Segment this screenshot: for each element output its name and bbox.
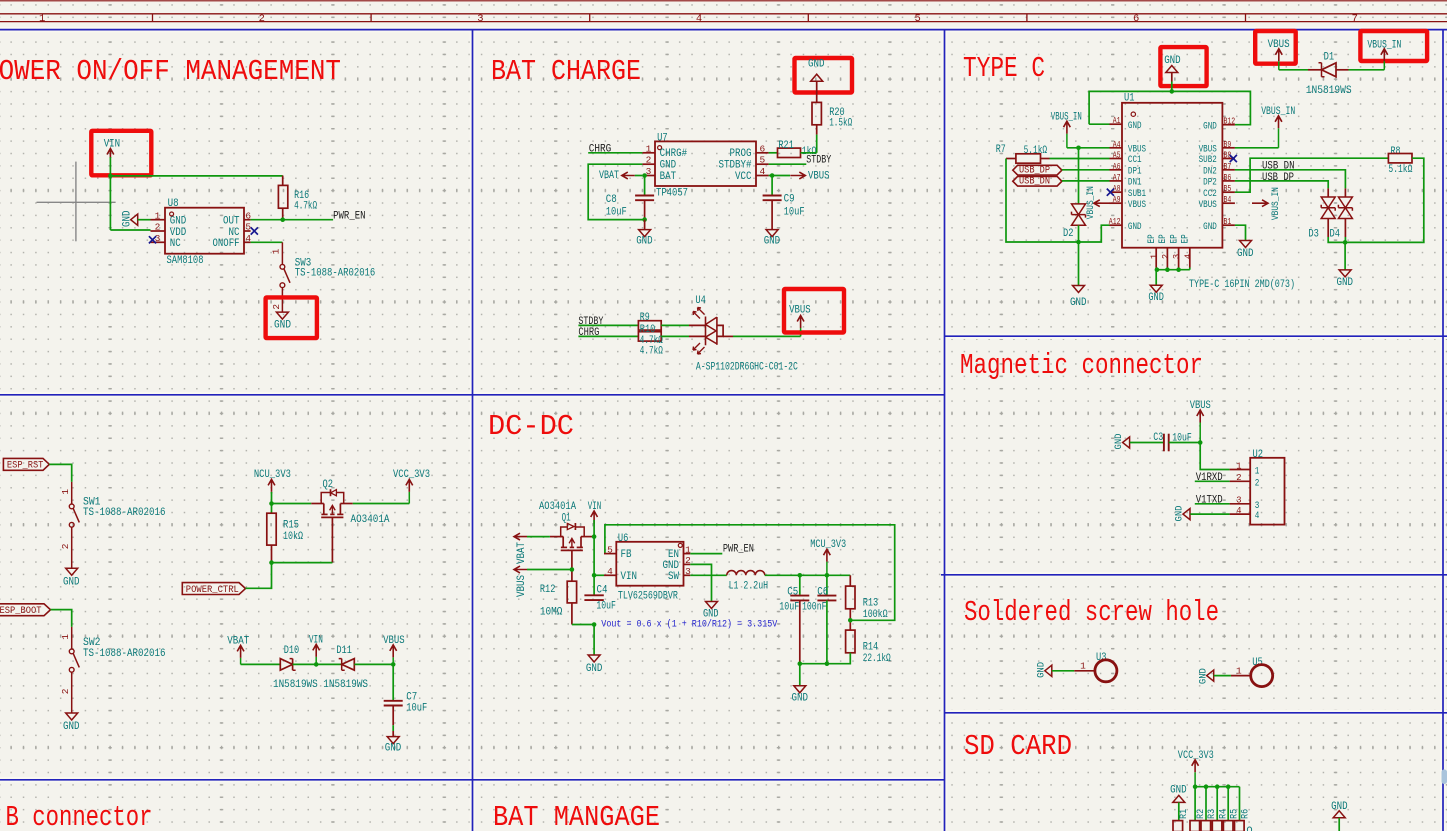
wire GND to C3 xyxy=(1130,442,1164,444)
svg-text:B1: B1 xyxy=(1224,217,1232,227)
svg-text:GND: GND xyxy=(1174,506,1186,522)
svg-text:Q1: Q1 xyxy=(562,512,571,524)
wire gnd rail top xyxy=(1089,91,1250,124)
wire ONOFF to SW3 xyxy=(251,241,283,243)
junction xyxy=(825,661,830,666)
wire PROG to R21 xyxy=(769,152,778,154)
wire D11 to VBUS node xyxy=(354,663,393,665)
svg-text:5: 5 xyxy=(759,155,765,166)
svg-text:GND: GND xyxy=(586,663,603,675)
resistor R14 xyxy=(846,630,855,653)
svg-text:1: 1 xyxy=(60,489,71,495)
junction xyxy=(642,217,647,222)
resistor R4 xyxy=(1212,821,1222,831)
resistor R20 xyxy=(812,102,821,124)
svg-text:STDBY#: STDBY# xyxy=(719,160,752,172)
svg-text:4.7kΩ: 4.7kΩ xyxy=(640,346,663,358)
power symbol GND U5 xyxy=(1207,670,1214,681)
junction xyxy=(108,174,113,179)
svg-text:B connector: B connector xyxy=(6,801,153,831)
capacitor C7 xyxy=(384,700,403,702)
svg-text:6: 6 xyxy=(1133,13,1139,25)
svg-text:Vout = 0.6 x (1 + R10/R12) = 3: Vout = 0.6 x (1 + R10/R12) = 3.315V xyxy=(601,618,777,630)
svg-text:4: 4 xyxy=(1183,254,1193,259)
power symbol GND U2 pin4 xyxy=(1183,509,1190,520)
wire ESP_RST to SW1 xyxy=(49,464,71,482)
capacitor C4 xyxy=(584,594,603,596)
pin 2 U2 xyxy=(1230,480,1251,482)
junction xyxy=(642,173,647,178)
ruler tick xyxy=(589,14,591,22)
ruler tick xyxy=(807,14,809,22)
svg-text:4: 4 xyxy=(759,166,765,177)
svg-text:10uF: 10uF xyxy=(784,206,805,218)
wire R10 to LED xyxy=(661,335,689,337)
svg-text:GND: GND xyxy=(63,576,80,588)
svg-text:GND: GND xyxy=(1237,248,1254,260)
svg-text:STDBY: STDBY xyxy=(806,154,831,166)
svg-text:4: 4 xyxy=(607,566,613,577)
pin B6 DP2 xyxy=(1222,180,1235,182)
svg-text:U8: U8 xyxy=(168,198,179,210)
wire VBUS down to pin1 xyxy=(1200,443,1229,470)
svg-text:B4: B4 xyxy=(1224,195,1232,205)
wire A1 gnd xyxy=(1089,123,1109,125)
svg-text:3: 3 xyxy=(685,566,691,577)
pin 6 OUT xyxy=(244,219,251,221)
pin 3 U2 xyxy=(1230,503,1251,505)
svg-text:A9: A9 xyxy=(1113,195,1121,205)
wire R21 to R20 xyxy=(801,152,817,154)
wire VIN down xyxy=(109,157,111,230)
svg-text:R12: R12 xyxy=(540,584,556,596)
sheet ruler band xyxy=(0,13,1447,15)
svg-text:FB: FB xyxy=(621,549,632,561)
resistor R9 xyxy=(638,321,661,330)
junction xyxy=(570,567,575,572)
svg-text:U7: U7 xyxy=(657,132,668,144)
svg-text:TS-1088-AR02016: TS-1088-AR02016 xyxy=(83,648,166,660)
power symbol GND C3 xyxy=(1123,437,1130,448)
wire VDD xyxy=(110,229,150,231)
svg-text:1: 1 xyxy=(646,143,652,154)
svg-text:GND: GND xyxy=(1148,292,1164,304)
wire CC2 to R8 xyxy=(1235,158,1389,192)
wires rail drops xyxy=(1194,787,1196,821)
resistor R16 xyxy=(278,185,287,208)
pin 3 SW xyxy=(684,574,691,576)
power flag VBUS_IN at B4 xyxy=(1252,200,1268,207)
wire GND pin2 down xyxy=(690,564,711,601)
svg-text:ESP_BOOT: ESP_BOOT xyxy=(0,605,42,617)
junction xyxy=(1155,267,1160,272)
svg-text:10uF: 10uF xyxy=(596,600,616,612)
ruler tick xyxy=(152,14,154,22)
halo under borders xyxy=(0,27,1447,33)
wire VBAT to Q1 xyxy=(527,536,550,538)
wire R12 to bottom xyxy=(571,603,573,625)
power symbol GND below C4 xyxy=(588,655,600,662)
svg-text:3: 3 xyxy=(477,13,483,25)
sheet ruler top edge xyxy=(0,0,1447,2)
wire R15 bottom to gate xyxy=(272,562,333,564)
wire GND SD right xyxy=(1338,818,1340,831)
svg-text:VIN: VIN xyxy=(621,571,638,583)
scrollbar thumb xyxy=(1442,770,1447,785)
svg-text:2: 2 xyxy=(685,555,691,566)
section border y=713 right xyxy=(945,712,1447,714)
svg-text:5: 5 xyxy=(914,13,920,25)
svg-text:1: 1 xyxy=(1255,466,1260,477)
highlight box GND typec xyxy=(1160,47,1206,86)
pin B8 SUB2 xyxy=(1222,158,1235,160)
wire R9 to LED xyxy=(661,324,689,326)
wire VBAT to pin3 xyxy=(635,175,643,177)
junction xyxy=(314,662,319,667)
wire VBUS to D1 xyxy=(1279,69,1308,71)
no-connect pin 3 xyxy=(149,236,156,243)
svg-text:B7: B7 xyxy=(1224,162,1232,172)
ruler tick xyxy=(1026,14,1028,22)
svg-text:R1: R1 xyxy=(1178,809,1190,819)
svg-text:D4: D4 xyxy=(1330,229,1341,241)
svg-text:GND: GND xyxy=(170,216,187,228)
wire CHRG to pin1 xyxy=(588,152,642,154)
svg-text:TS-1088-AR02016: TS-1088-AR02016 xyxy=(295,267,376,279)
svg-text:ESP_RST: ESP_RST xyxy=(7,460,44,472)
svg-text:GND: GND xyxy=(121,210,133,227)
wire rail to GND xyxy=(799,664,801,686)
svg-text:2: 2 xyxy=(1161,254,1171,259)
svg-text:VBAT: VBAT xyxy=(599,170,619,182)
svg-text:C9: C9 xyxy=(784,194,795,206)
svg-text:BAT CHARGE: BAT CHARGE xyxy=(491,55,641,88)
resistor R6 xyxy=(1235,821,1245,831)
svg-text:C3: C3 xyxy=(1153,432,1163,444)
svg-text:VBUS: VBUS xyxy=(789,305,811,317)
wire VBAT to D10 xyxy=(241,663,281,665)
resistor R2 xyxy=(1190,821,1200,831)
resistor R12 xyxy=(567,581,576,603)
wire V1TXD xyxy=(1195,503,1230,505)
wire C3 to VBUS xyxy=(1169,442,1201,444)
svg-text:GND: GND xyxy=(274,319,291,331)
pin 3 NC xyxy=(151,241,166,243)
svg-text:GND: GND xyxy=(1164,55,1181,67)
svg-text:A4: A4 xyxy=(1113,140,1121,150)
wire to GND D3D4 xyxy=(1344,242,1346,270)
pin 1 U3 xyxy=(1074,670,1095,672)
svg-text:B6: B6 xyxy=(1224,173,1232,183)
svg-text:TYPE C: TYPE C xyxy=(963,52,1045,85)
no-connect A8 xyxy=(1107,189,1114,196)
svg-text:TLV62569DBVR: TLV62569DBVR xyxy=(618,590,678,602)
wire Q1 gate to R12 xyxy=(571,550,573,581)
svg-text:R15: R15 xyxy=(283,520,299,532)
svg-text:7: 7 xyxy=(1352,13,1358,25)
svg-text:A1: A1 xyxy=(1113,116,1121,126)
connector U2 body xyxy=(1250,458,1284,525)
svg-text:PROG: PROG xyxy=(730,148,752,160)
power symbol GND below C8 xyxy=(644,220,646,230)
pin 6 PROG xyxy=(756,152,769,154)
svg-text:VBUS_IN: VBUS_IN xyxy=(1270,187,1282,220)
junction xyxy=(391,662,396,667)
junction xyxy=(1076,240,1081,245)
wire D1 to VBUS_IN xyxy=(1336,69,1349,71)
pin B9 VBUS xyxy=(1222,147,1235,149)
svg-text:GND: GND xyxy=(792,693,809,705)
svg-text:4: 4 xyxy=(696,13,702,25)
svg-text:DC-DC: DC-DC xyxy=(488,410,574,443)
svg-text:10uF: 10uF xyxy=(606,206,627,218)
svg-text:PWR_EN: PWR_EN xyxy=(723,543,754,555)
power symbol GND U6 xyxy=(706,602,718,609)
svg-text:4: 4 xyxy=(245,233,251,244)
wire NCU to Q2 source xyxy=(272,503,312,505)
wire C7 to GND xyxy=(392,706,394,726)
power symbol GND DC out xyxy=(794,686,806,693)
pin A12 GND xyxy=(1110,224,1123,226)
svg-text:Soldered screw hole: Soldered screw hole xyxy=(964,596,1219,629)
svg-text:100nF: 100nF xyxy=(802,602,827,614)
hierarchical label ESP_BOOT xyxy=(0,604,51,616)
wire GND loop pin2 xyxy=(588,164,644,219)
svg-text:100kΩ: 100kΩ xyxy=(863,609,888,621)
pin A4 VBUS xyxy=(1110,147,1123,149)
no-connect pin 5 xyxy=(251,227,258,234)
svg-text:D11: D11 xyxy=(336,645,352,657)
section border y=395 left xyxy=(0,394,945,396)
wire STDBY to R9 xyxy=(578,324,638,326)
resistor R10 xyxy=(638,332,661,341)
svg-text:2: 2 xyxy=(271,304,282,310)
svg-text:1: 1 xyxy=(271,248,282,254)
svg-text:GND: GND xyxy=(63,721,80,733)
wire R20 to R21 xyxy=(816,125,818,135)
svg-text:GND: GND xyxy=(1337,277,1354,289)
power symbol GND EP xyxy=(1150,285,1162,292)
svg-text:U1: U1 xyxy=(1124,93,1135,105)
svg-text:L1 2.2uH: L1 2.2uH xyxy=(729,580,769,592)
pin 5 NC xyxy=(244,230,251,232)
svg-text:4.7kΩ: 4.7kΩ xyxy=(294,201,317,213)
power flag VBUS_IN at A9 xyxy=(1094,200,1110,207)
svg-text:2: 2 xyxy=(1255,477,1260,488)
highlight box VBUS_IN typec xyxy=(1360,31,1427,61)
diode D3 TVS xyxy=(1327,188,1329,197)
power symbol GND D3D4 xyxy=(1339,270,1351,277)
svg-text:GND: GND xyxy=(1128,221,1142,232)
svg-text:TP4057: TP4057 xyxy=(656,188,688,200)
junction xyxy=(770,173,775,178)
wire LED to VBUS xyxy=(723,335,733,337)
svg-text:R7: R7 xyxy=(996,144,1006,156)
pin A1 GND xyxy=(1110,123,1123,125)
svg-text:BAT: BAT xyxy=(660,171,677,183)
wire DP2 to D3 xyxy=(1235,181,1328,189)
no-connect B8 xyxy=(1230,155,1237,162)
svg-text:CHRG#: CHRG# xyxy=(660,148,688,160)
svg-text:3: 3 xyxy=(1172,254,1182,259)
wire B9 to VBUS_IN xyxy=(1235,147,1279,149)
svg-text:VBUS: VBUS xyxy=(808,170,830,182)
svg-text:VBUS: VBUS xyxy=(1128,199,1146,210)
pin 4 VIN xyxy=(604,574,616,576)
svg-text:OUT: OUT xyxy=(223,216,240,228)
svg-text:B5: B5 xyxy=(1224,184,1232,194)
junction xyxy=(1215,784,1220,789)
svg-text:GND: GND xyxy=(385,742,402,754)
power symbol GND at U8 pin1 xyxy=(131,214,138,225)
wire GND pin4 xyxy=(1190,513,1229,515)
pin 1 GND xyxy=(151,219,166,221)
wire VBUS_IN to A4 xyxy=(1067,147,1110,149)
wire Q2 drain to VCC_3V3 xyxy=(353,503,410,505)
section border vertical right edge xyxy=(1442,30,1444,831)
svg-text:5: 5 xyxy=(607,544,613,555)
svg-text:A-SP1102DR6GHC-C01-2C: A-SP1102DR6GHC-C01-2C xyxy=(696,361,798,373)
wire CHRG to R10 xyxy=(578,335,638,337)
highlight box GND top xyxy=(795,58,853,93)
svg-text:NC: NC xyxy=(170,238,181,250)
section border vertical x=944 xyxy=(944,30,946,831)
capacitor C6 xyxy=(826,575,828,595)
feedback top wire xyxy=(605,525,895,621)
capacitor C5 xyxy=(799,575,801,595)
svg-text:USB_DN: USB_DN xyxy=(1019,176,1050,188)
svg-text:EP: EP xyxy=(1180,234,1191,243)
wire V1RXD xyxy=(1195,480,1230,482)
section border y=575 right xyxy=(941,574,1447,576)
svg-text:NC: NC xyxy=(229,227,240,239)
highlight box GND SW3 xyxy=(266,297,317,338)
wire GND U3 xyxy=(1052,670,1074,672)
svg-text:4: 4 xyxy=(1255,510,1260,521)
svg-text:GND: GND xyxy=(660,160,677,172)
svg-text:TYPE-C 16PIN 2MD(073): TYPE-C 16PIN 2MD(073) xyxy=(1189,279,1295,291)
pin 5 FB xyxy=(604,553,616,555)
wire OUT to PWR_EN xyxy=(251,219,334,221)
svg-text:MCU_3V3: MCU_3V3 xyxy=(810,539,846,551)
hierarchical label POWER_CTRL xyxy=(182,583,245,595)
pin 4 ONOFF xyxy=(244,241,251,243)
svg-text:R13: R13 xyxy=(863,598,879,610)
svg-text:GND: GND xyxy=(808,59,825,71)
resistor R13 xyxy=(849,575,851,586)
pin 1 U2 xyxy=(1230,469,1251,471)
junction xyxy=(1170,89,1175,94)
svg-text:SW2: SW2 xyxy=(83,637,101,649)
resistor R3 xyxy=(1201,821,1211,831)
pin B5 CC2 xyxy=(1222,191,1235,193)
svg-text:1: 1 xyxy=(39,13,45,25)
capacitor C3 xyxy=(1163,434,1165,452)
hier label USB_DP xyxy=(1013,165,1062,175)
svg-text:VBAT: VBAT xyxy=(227,635,249,647)
svg-text:1N5819WS: 1N5819WS xyxy=(1306,85,1352,97)
svg-text:U6: U6 xyxy=(618,533,629,545)
svg-text:1: 1 xyxy=(1236,665,1242,676)
svg-text:5.1kΩ: 5.1kΩ xyxy=(1024,145,1048,157)
junction xyxy=(1193,784,1198,789)
svg-text:6: 6 xyxy=(245,210,251,221)
svg-text:VIN: VIN xyxy=(104,139,121,151)
wire STDBY pin5 xyxy=(769,163,807,165)
svg-text:3: 3 xyxy=(1236,496,1241,506)
svg-text:GND: GND xyxy=(1035,662,1047,678)
wire R14 bottom rail xyxy=(800,653,851,664)
capacitor C9 xyxy=(771,176,773,195)
wire R8 right down xyxy=(1345,158,1424,242)
svg-text:VBUS: VBUS xyxy=(1128,143,1146,154)
pin A5 CC1 xyxy=(1110,158,1123,160)
svg-text:CC2: CC2 xyxy=(1203,188,1217,199)
wire ESP_BOOT to SW2 xyxy=(51,610,72,627)
svg-text:GND: GND xyxy=(1197,668,1209,684)
svg-text:10kΩ: 10kΩ xyxy=(283,531,303,543)
svg-text:Ω: Ω xyxy=(1247,826,1253,831)
wire A12 gnd xyxy=(1079,225,1110,242)
junction xyxy=(269,501,274,506)
wire POWER_CTRL xyxy=(246,563,272,589)
svg-text:2: 2 xyxy=(155,222,161,233)
diode D4 TVS xyxy=(1344,188,1346,197)
resistor R21 xyxy=(778,148,801,157)
svg-text:B9: B9 xyxy=(1224,140,1232,150)
svg-text:POWER ON/OFF MANAGEMENT: POWER ON/OFF MANAGEMENT xyxy=(0,55,341,88)
svg-text:V1RXD: V1RXD xyxy=(1196,472,1223,484)
ic U6 TLV62569DBVR body xyxy=(616,542,683,586)
svg-text:GND: GND xyxy=(1203,120,1217,131)
svg-text:1: 1 xyxy=(685,544,691,555)
wire D3 D4 join xyxy=(1327,219,1329,238)
pin 1 U5 xyxy=(1231,675,1251,677)
svg-text:EP: EP xyxy=(1157,234,1168,243)
svg-text:GND: GND xyxy=(1113,434,1125,450)
power symbol GND below SW2 xyxy=(66,713,78,720)
wire EP to GND xyxy=(1155,270,1157,286)
svg-text:SD CARD: SD CARD xyxy=(964,730,1072,763)
pin 3 BAT xyxy=(642,175,655,177)
svg-text:10uF: 10uF xyxy=(406,703,427,715)
wire C4 R12 gnd xyxy=(593,625,595,656)
junction xyxy=(1204,784,1209,789)
svg-text:BAT MANGAGE: BAT MANGAGE xyxy=(493,801,660,831)
junction xyxy=(848,618,853,623)
wire D2 to gnd rail xyxy=(1078,225,1080,285)
junction xyxy=(592,573,597,578)
power symbol GND D2 xyxy=(1073,286,1085,293)
section border y=780 left xyxy=(0,779,945,781)
section border top xyxy=(0,29,1447,31)
resistor R5 xyxy=(1223,821,1233,831)
wire VCC rail SD xyxy=(1195,786,1239,788)
svg-text:C4: C4 xyxy=(597,585,608,597)
svg-text:Magnetic connector: Magnetic connector xyxy=(960,349,1203,382)
pin B7 DN2 xyxy=(1222,169,1235,171)
power symbol GND B1 xyxy=(1240,241,1252,248)
pins EP bottom xyxy=(1155,248,1157,268)
svg-text:D3: D3 xyxy=(1308,229,1319,241)
svg-text:TS-1088-AR02016: TS-1088-AR02016 xyxy=(83,507,166,519)
svg-text:6: 6 xyxy=(759,143,765,154)
pin 1 EN xyxy=(684,553,691,555)
ruler tick xyxy=(370,14,372,22)
wire VBUS to R12 node xyxy=(527,569,572,571)
pin 4 U2 xyxy=(1230,513,1251,515)
power symbol GND below SW1 xyxy=(66,568,78,575)
